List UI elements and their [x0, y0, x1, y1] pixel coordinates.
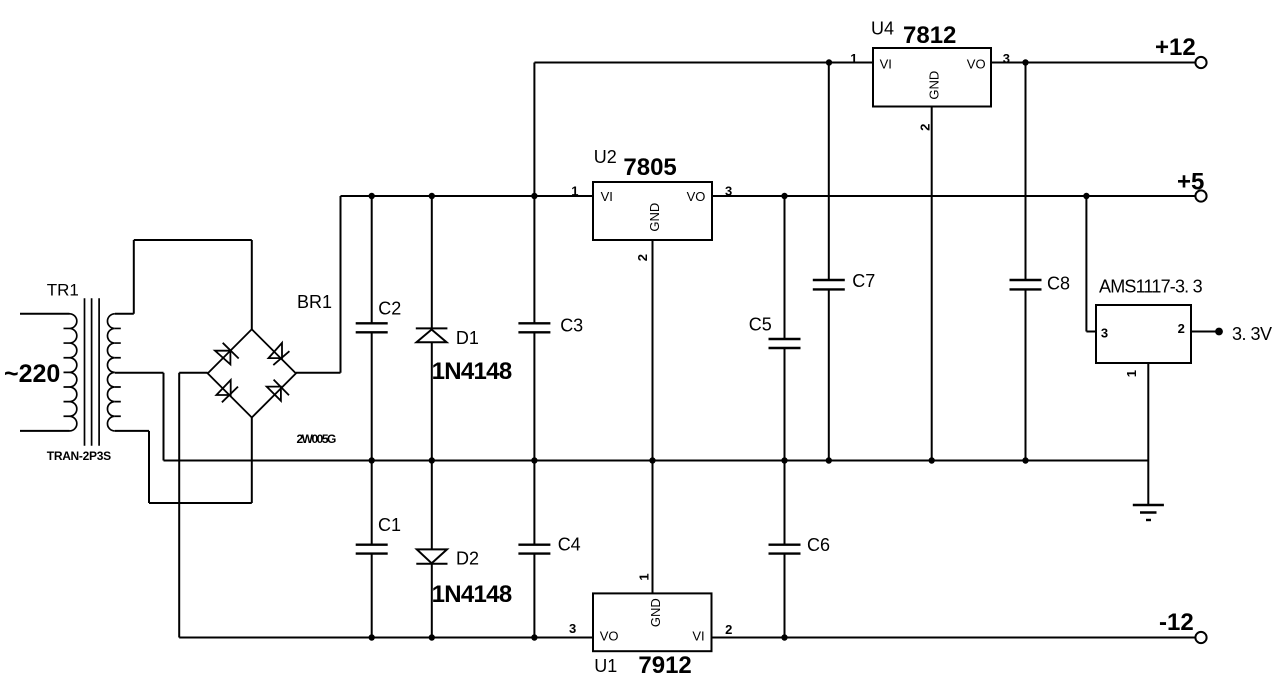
svg-text:~220: ~220 [4, 360, 60, 388]
svg-text:3: 3 [1003, 51, 1010, 66]
svg-text:TRAN-2P3S: TRAN-2P3S [47, 449, 111, 463]
svg-text:VI: VI [880, 57, 892, 72]
svg-text:1N4148: 1N4148 [432, 358, 512, 385]
svg-text:2: 2 [725, 622, 732, 637]
svg-text:2: 2 [918, 124, 933, 131]
svg-text:-12: -12 [1159, 609, 1194, 636]
svg-text:VO: VO [687, 189, 706, 204]
svg-text:3: 3 [569, 621, 576, 636]
svg-text:U1: U1 [594, 656, 617, 676]
svg-text:U4: U4 [871, 18, 894, 38]
svg-text:C8: C8 [1047, 274, 1070, 294]
svg-text:C1: C1 [378, 515, 401, 535]
svg-text:C5: C5 [749, 315, 772, 335]
svg-text:AMS1117-3. 3: AMS1117-3. 3 [1099, 277, 1203, 297]
svg-text:+12: +12 [1155, 34, 1196, 61]
svg-text:C7: C7 [852, 271, 875, 291]
svg-text:C2: C2 [378, 299, 401, 319]
svg-text:3. 3V: 3. 3V [1232, 324, 1272, 344]
svg-text:1: 1 [571, 183, 578, 198]
svg-text:GND: GND [926, 71, 941, 100]
svg-text:VI: VI [601, 189, 613, 204]
svg-text:1: 1 [636, 573, 651, 580]
svg-text:VO: VO [600, 629, 619, 644]
svg-text:VO: VO [967, 57, 986, 72]
svg-text:7805: 7805 [623, 154, 676, 181]
svg-text:U2: U2 [594, 147, 617, 167]
svg-text:GND: GND [647, 203, 662, 232]
svg-text:7812: 7812 [903, 22, 956, 49]
svg-text:D1: D1 [456, 328, 479, 348]
svg-text:1: 1 [850, 51, 857, 66]
svg-text:1: 1 [1124, 370, 1139, 377]
svg-text:C4: C4 [558, 535, 581, 555]
svg-text:+5: +5 [1177, 168, 1204, 195]
svg-text:TR1: TR1 [47, 281, 79, 300]
svg-text:2: 2 [1178, 321, 1185, 336]
svg-text:VI: VI [692, 629, 704, 644]
svg-text:GND: GND [648, 598, 663, 627]
svg-text:D2: D2 [456, 549, 479, 569]
svg-text:3: 3 [725, 183, 732, 198]
svg-text:2W005G: 2W005G [297, 432, 337, 446]
svg-text:BR1: BR1 [297, 292, 332, 312]
svg-text:7912: 7912 [638, 652, 691, 679]
svg-text:1N4148: 1N4148 [432, 581, 512, 608]
svg-text:C6: C6 [807, 535, 830, 555]
svg-text:3: 3 [1101, 326, 1108, 341]
svg-text:2: 2 [635, 254, 650, 261]
svg-text:C3: C3 [560, 316, 583, 336]
